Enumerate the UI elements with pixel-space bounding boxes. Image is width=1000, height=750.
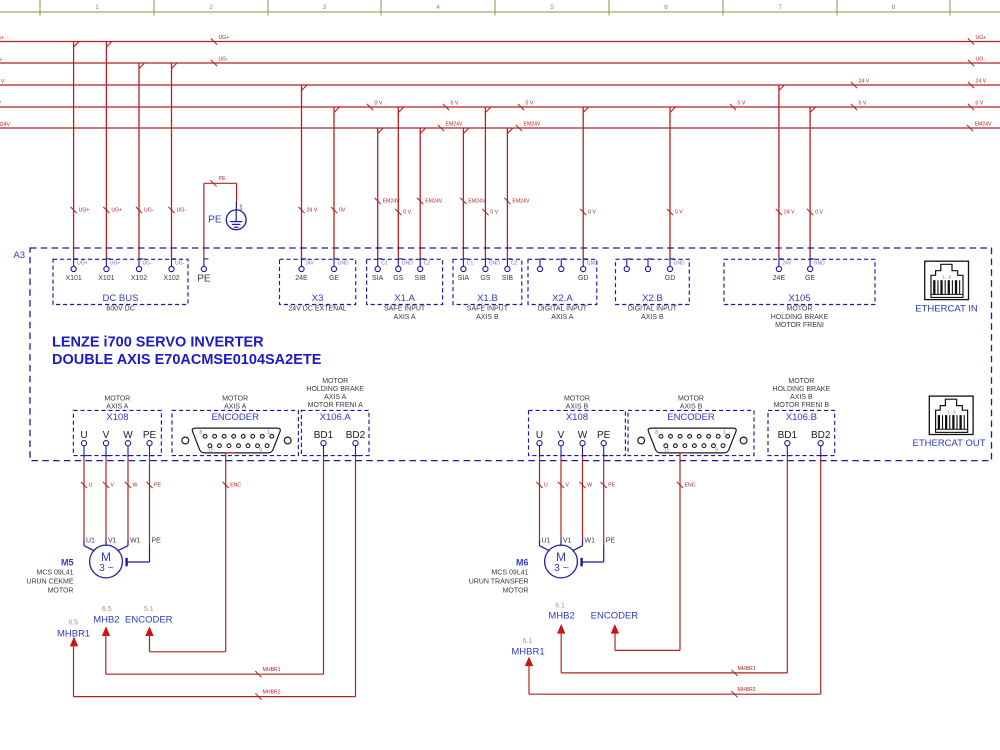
svg-text:UG-: UG-	[976, 57, 986, 63]
svg-text:24 V: 24 V	[976, 79, 987, 85]
connector X106.B	[768, 378, 835, 456]
svg-text:1: 1	[95, 4, 99, 11]
wire 0V drop to x=334	[331, 107, 346, 259]
svg-text:GD: GD	[578, 275, 589, 282]
svg-text:AXIS A: AXIS A	[224, 403, 247, 410]
svg-text:3 ~: 3 ~	[99, 562, 114, 574]
svg-text:HOLDING BRAKE: HOLDING BRAKE	[771, 314, 829, 321]
svg-text:GND: GND	[674, 260, 686, 266]
svg-text:3 ~: 3 ~	[554, 562, 569, 574]
svg-text:0 V: 0 V	[375, 101, 383, 107]
svg-text:W1: W1	[130, 538, 141, 545]
pin 24E of X105	[773, 259, 792, 282]
svg-text:PE: PE	[143, 430, 157, 441]
svg-text:PE: PE	[154, 483, 161, 489]
svg-text:MHB2: MHB2	[93, 614, 119, 625]
svg-text:SAFE INPUT: SAFE INPUT	[384, 306, 426, 313]
svg-text:MOTOR: MOTOR	[788, 378, 814, 385]
svg-text:ENCODER: ENCODER	[667, 412, 715, 423]
svg-text:6.5: 6.5	[102, 606, 112, 613]
svg-text:MHBR1: MHBR1	[57, 629, 90, 640]
svg-text:GND: GND	[402, 260, 414, 266]
pin U of X108.A	[80, 430, 88, 457]
svg-text:AXIS B: AXIS B	[790, 394, 813, 401]
svg-text:4: 4	[436, 4, 440, 11]
svg-text:MHBR2: MHBR2	[263, 690, 281, 696]
motor M6	[469, 545, 578, 594]
pin GD of X2.A	[578, 259, 598, 282]
svg-text:EM24V: EM24V	[512, 199, 530, 205]
svg-text:UG+: UG+	[110, 260, 121, 266]
connector X108.B	[529, 395, 626, 455]
svg-text:AXIS A: AXIS A	[394, 314, 417, 321]
svg-text:0 V: 0 V	[738, 101, 746, 107]
svg-text:5.1: 5.1	[144, 606, 154, 613]
title text	[52, 334, 322, 368]
svg-text:AXIS A: AXIS A	[324, 394, 347, 401]
svg-text:V: V	[103, 430, 110, 441]
pin GD of X2.B	[665, 259, 685, 282]
svg-text:HOLDING BRAKE: HOLDING BRAKE	[773, 386, 831, 393]
svg-text:W: W	[578, 430, 588, 441]
sheet column ruler	[0, 0, 1000, 16]
svg-text:9: 9	[715, 448, 718, 454]
svg-text:SIA: SIA	[458, 275, 470, 282]
connector ENCODER.B	[628, 395, 754, 455]
motor M5	[26, 545, 122, 594]
interruption arrow ENCODER axis B	[591, 610, 639, 633]
svg-text:M5: M5	[61, 558, 74, 568]
svg-text:MHBR1: MHBR1	[511, 647, 544, 658]
svg-text:UG-: UG-	[143, 260, 153, 266]
svg-text:EM24V: EM24V	[425, 199, 443, 205]
interruption arrow MHBR1 axis A	[57, 620, 90, 647]
interruption arrow ENCODER axis A	[125, 606, 173, 636]
svg-text:MOTOR: MOTOR	[322, 378, 348, 385]
wire PE axis B	[582, 457, 616, 566]
pin U of X108.B	[536, 430, 544, 457]
svg-text:X102: X102	[163, 275, 179, 282]
wire EM24V drop to x=463	[460, 128, 486, 259]
svg-text:X3: X3	[312, 293, 324, 304]
svg-text:URUN TRANSFER: URUN TRANSFER	[469, 579, 529, 586]
svg-text:MOTOR: MOTOR	[787, 306, 813, 313]
pin W of X108.A	[123, 430, 133, 457]
svg-text:DC BUS: DC BUS	[103, 293, 139, 304]
svg-text:ENCODER: ENCODER	[591, 610, 639, 621]
svg-text:GND: GND	[338, 260, 350, 266]
svg-text:GND: GND	[814, 260, 826, 266]
pin nc of X2.B	[645, 259, 652, 272]
svg-text:AXIS B: AXIS B	[476, 314, 499, 321]
svg-text:EM24V: EM24V	[383, 199, 401, 205]
pin V of X108.B	[558, 430, 566, 457]
svg-text:DOUBLE AXIS E70ACMSE0104SA2ETE: DOUBLE AXIS E70ACMSE0104SA2ETE	[52, 352, 322, 368]
connector X105	[724, 259, 875, 329]
svg-text:0V: 0V	[339, 208, 346, 214]
bus wire 0 V	[0, 101, 1000, 111]
svg-text:X102: X102	[131, 275, 147, 282]
svg-text:0 V: 0 V	[588, 210, 596, 216]
svg-text:24V: 24V	[782, 260, 792, 266]
svg-text:M6: M6	[516, 558, 529, 568]
wire U phase axis A	[81, 457, 95, 551]
svg-text:0 V: 0 V	[859, 101, 867, 107]
bus wire UG+	[0, 35, 1000, 45]
svg-text:SIA: SIA	[372, 275, 384, 282]
svg-text:C2: C2	[424, 260, 431, 266]
svg-text:DIGITAL INPUT: DIGITAL INPUT	[628, 306, 678, 313]
pin X101 of DC BUS	[98, 259, 120, 282]
svg-text:7: 7	[778, 4, 782, 11]
svg-text:GD: GD	[665, 275, 676, 282]
pin BD2 of X106.B	[811, 430, 831, 457]
svg-text:V: V	[558, 430, 565, 441]
svg-text:MOTOR FRENI: MOTOR FRENI	[775, 322, 824, 329]
svg-text:UG+: UG+	[111, 208, 122, 214]
connector ENCODER.A	[172, 395, 298, 455]
svg-text:0 V: 0 V	[526, 101, 534, 107]
svg-text:PE: PE	[608, 483, 615, 489]
svg-text:24 V: 24 V	[0, 79, 5, 85]
svg-text:MHB2: MHB2	[548, 610, 574, 621]
wire W phase axis A	[118, 457, 141, 551]
svg-text:UG-: UG-	[0, 57, 3, 63]
wire 0 V drop to x=810	[807, 107, 823, 259]
svg-text:U1: U1	[542, 538, 551, 545]
connector X1.A	[367, 259, 443, 321]
svg-text:24E: 24E	[773, 275, 786, 282]
svg-text:GE: GE	[329, 275, 339, 282]
pin BD2 of X106.A	[346, 430, 366, 457]
svg-text:1...8: 1...8	[947, 409, 956, 414]
svg-text:MOTOR: MOTOR	[503, 588, 529, 595]
svg-text:MOTOR: MOTOR	[678, 395, 704, 402]
svg-text:0 V: 0 V	[815, 210, 823, 216]
svg-text:UG+: UG+	[976, 35, 987, 41]
svg-text:SIB: SIB	[502, 275, 514, 282]
svg-text:SIB: SIB	[415, 275, 427, 282]
svg-text:0 V: 0 V	[451, 101, 459, 107]
wire MHBR2 BD2 axis A	[74, 457, 356, 700]
svg-text:24 V: 24 V	[784, 210, 795, 216]
svg-text:UG-: UG-	[175, 260, 185, 266]
svg-text:MOTOR: MOTOR	[48, 588, 74, 595]
connector X2.A	[528, 259, 597, 321]
svg-text:GS: GS	[393, 275, 403, 282]
svg-text:AXIS B: AXIS B	[680, 403, 703, 410]
svg-text:X108: X108	[566, 412, 588, 423]
connector X2.B	[616, 259, 690, 321]
wire 0 V drop to x=583	[580, 107, 596, 259]
svg-text:X101: X101	[65, 275, 81, 282]
svg-text:AXIS B: AXIS B	[641, 314, 664, 321]
svg-text:PE: PE	[219, 176, 226, 182]
svg-text:1: 1	[267, 430, 270, 436]
svg-text:MOTOR: MOTOR	[104, 395, 130, 402]
wire PE axis A	[127, 457, 162, 566]
device box A3 LENZE i700 servo inverter	[13, 248, 991, 461]
svg-text:C1: C1	[467, 260, 474, 266]
wire 24 V drop to x=779	[776, 85, 795, 259]
svg-text:6.5: 6.5	[68, 620, 78, 627]
svg-text:EM24V: EM24V	[975, 122, 993, 128]
svg-text:1: 1	[723, 430, 726, 436]
svg-text:U1: U1	[86, 538, 95, 545]
svg-text:U: U	[536, 430, 543, 441]
svg-text:X106.B: X106.B	[786, 412, 817, 423]
svg-text:X101: X101	[98, 275, 114, 282]
wire ENC axis B encoder to arrow	[615, 453, 696, 651]
pin GE of X105	[805, 259, 825, 282]
connector X106.A	[301, 378, 369, 456]
pin 24E of X3	[295, 259, 314, 282]
svg-text:ENC: ENC	[685, 483, 696, 489]
svg-text:BD2: BD2	[346, 430, 366, 441]
wire UG- drop to x=139	[136, 63, 154, 259]
svg-text:UG+: UG+	[77, 260, 88, 266]
svg-text:UG-: UG-	[177, 208, 187, 214]
svg-text:GE: GE	[805, 275, 815, 282]
svg-text:BD2: BD2	[811, 430, 831, 441]
svg-text:MCS 09L41: MCS 09L41	[492, 570, 529, 577]
bus wire EM24V	[0, 122, 1000, 132]
svg-text:EM24V: EM24V	[468, 199, 486, 205]
svg-text:ETHERCAT IN: ETHERCAT IN	[915, 304, 978, 315]
wire MHBR1 BD1 axis B	[561, 457, 787, 676]
wire W phase axis B	[573, 457, 596, 551]
interruption arrow MHBR1 axis B	[511, 638, 544, 666]
svg-text:EM24V: EM24V	[524, 122, 542, 128]
pin PE of X108.B	[597, 430, 611, 457]
svg-text:MOTOR: MOTOR	[222, 395, 248, 402]
svg-text:6.1: 6.1	[523, 638, 533, 645]
svg-text:UG+: UG+	[219, 35, 230, 41]
bus wire UG-	[0, 57, 1000, 67]
connector X108.A	[73, 395, 161, 455]
pin GE of X3	[329, 259, 349, 282]
svg-text:MOTOR FRENI B: MOTOR FRENI B	[774, 402, 830, 409]
wire ENC axis A encoder to arrow	[150, 453, 242, 652]
wire PE to earth	[204, 176, 237, 259]
pin PE of A3	[197, 259, 211, 285]
svg-text:LENZE i700 SERVO INVERTER: LENZE i700 SERVO INVERTER	[52, 334, 264, 350]
pin X102 of DC BUS	[131, 259, 152, 282]
svg-text:0 V: 0 V	[976, 101, 984, 107]
svg-text:PE: PE	[197, 274, 211, 285]
svg-text:0 V: 0 V	[490, 210, 498, 216]
svg-text:X1.A: X1.A	[394, 293, 415, 304]
svg-text:X108: X108	[106, 412, 128, 423]
earth symbol PE	[208, 202, 246, 230]
svg-text:PE: PE	[606, 538, 616, 545]
wire 0 V drop to x=670	[667, 107, 683, 259]
svg-text:BD1: BD1	[314, 430, 334, 441]
svg-text:15: 15	[664, 448, 670, 454]
pin SIB of X1.A	[415, 259, 431, 282]
svg-text:24V: 24V	[305, 260, 315, 266]
svg-text:SAFE INPUT: SAFE INPUT	[467, 306, 509, 313]
svg-text:V: V	[566, 483, 570, 489]
svg-text:AXIS A: AXIS A	[551, 314, 574, 321]
svg-text:W: W	[587, 483, 592, 489]
pin SIB of X1.B	[502, 259, 518, 282]
pin PE of X108.A	[143, 430, 157, 457]
svg-text:PE: PE	[152, 538, 162, 545]
svg-text:AXIS B: AXIS B	[566, 403, 589, 410]
svg-text:EM24V: EM24V	[446, 122, 464, 128]
svg-text:6.1: 6.1	[555, 603, 565, 610]
pin nc of X2.A	[559, 259, 566, 272]
svg-text:W: W	[133, 483, 138, 489]
wire UG- drop to x=172	[168, 63, 186, 259]
svg-text:U: U	[80, 430, 87, 441]
connector X3	[280, 259, 356, 312]
svg-text:24E: 24E	[295, 275, 308, 282]
svg-text:GND: GND	[587, 260, 599, 266]
wire MHBR2 BD2 axis B	[529, 457, 821, 697]
wire 0 V drop to x=398	[395, 107, 411, 259]
wire V phase axis B	[558, 457, 572, 546]
wire EM24V drop to x=420	[417, 128, 443, 259]
svg-text:MOTOR FRENI A: MOTOR FRENI A	[308, 402, 363, 409]
svg-text:8: 8	[892, 4, 896, 11]
wire UG+ drop to x=74	[71, 42, 90, 259]
svg-text:8: 8	[655, 430, 658, 436]
svg-text:0 V: 0 V	[675, 210, 683, 216]
svg-text:V1: V1	[108, 538, 117, 545]
svg-text:MHBR2: MHBR2	[738, 687, 756, 693]
pin SIA of X1.A	[372, 259, 388, 282]
svg-text:9: 9	[259, 448, 262, 454]
svg-text:GND: GND	[489, 260, 501, 266]
svg-text:ETHERCAT OUT: ETHERCAT OUT	[912, 438, 985, 449]
svg-text:W: W	[123, 430, 133, 441]
svg-text:X106.A: X106.A	[320, 412, 352, 423]
svg-text:ENCODER: ENCODER	[211, 412, 259, 423]
svg-text:MHBR1: MHBR1	[738, 666, 756, 672]
pin nc of X2.B	[624, 259, 631, 272]
svg-text:0 V: 0 V	[403, 210, 411, 216]
wire MHBR1 BD1 axis A	[106, 457, 324, 677]
svg-text:W1: W1	[585, 538, 596, 545]
svg-text:GS: GS	[480, 275, 490, 282]
svg-text:UG+: UG+	[0, 36, 4, 42]
wire V phase axis A	[103, 457, 117, 546]
pin V of X108.A	[103, 430, 111, 457]
pin SIA of X1.B	[458, 259, 474, 282]
svg-text:PE: PE	[208, 215, 222, 226]
DB15 encoder connector axis A	[182, 428, 291, 454]
svg-text:V1: V1	[563, 538, 572, 545]
svg-text:DIGITAL INPUT: DIGITAL INPUT	[538, 306, 588, 313]
svg-text:U: U	[89, 483, 93, 489]
svg-text:U: U	[544, 483, 548, 489]
svg-text:1...8: 1...8	[942, 275, 951, 280]
svg-text:C1: C1	[381, 260, 388, 266]
svg-text:UG+: UG+	[79, 208, 90, 214]
svg-text:A3: A3	[13, 250, 25, 261]
svg-text:X1.B: X1.B	[477, 293, 498, 304]
svg-text:X2.B: X2.B	[642, 293, 663, 304]
connector X1.B	[453, 259, 522, 321]
svg-text:2: 2	[209, 4, 213, 11]
svg-text:AXIS A: AXIS A	[106, 403, 129, 410]
pin GS of X1.A	[393, 259, 413, 282]
svg-text:6: 6	[664, 4, 668, 11]
svg-text:8: 8	[199, 430, 202, 436]
svg-text:V: V	[111, 483, 115, 489]
svg-text:15: 15	[208, 448, 214, 454]
svg-text:5: 5	[550, 4, 554, 11]
svg-text:3: 3	[323, 4, 327, 11]
svg-text:600V DC: 600V DC	[106, 306, 134, 313]
wire EM24V drop to x=378	[375, 128, 401, 259]
connector ETHERCAT IN RJ45	[915, 261, 978, 314]
svg-text:24 V: 24 V	[307, 208, 318, 214]
interruption arrow MHB2 axis A	[93, 606, 119, 636]
svg-text:X105: X105	[788, 293, 810, 304]
wire 24 V drop to x=302	[298, 85, 317, 259]
wire 0 V drop to x=485	[482, 107, 498, 259]
svg-text:MCS 09L41: MCS 09L41	[37, 570, 74, 577]
svg-text:BD1: BD1	[778, 430, 798, 441]
pin BD1 of X106.A	[314, 430, 334, 457]
svg-text:ENCODER: ENCODER	[125, 614, 173, 625]
wire EM24V drop to x=507	[504, 128, 530, 259]
pin X101 of DC BUS	[65, 259, 87, 282]
svg-text:MHBR1: MHBR1	[263, 667, 281, 673]
svg-text:UG-: UG-	[144, 208, 154, 214]
svg-text:24V DC EXTENAL: 24V DC EXTENAL	[288, 306, 346, 313]
connector DC BUS	[53, 259, 188, 312]
svg-text:C2: C2	[511, 260, 518, 266]
svg-text:ENC: ENC	[230, 483, 241, 489]
svg-text:MOTOR: MOTOR	[564, 395, 590, 402]
pin W of X108.B	[578, 430, 588, 457]
bus wire 24 V	[0, 79, 1000, 89]
pin X102 of DC BUS	[163, 259, 184, 282]
wire U phase axis B	[536, 457, 550, 551]
interruption arrow MHB2 axis B	[548, 603, 574, 634]
svg-text:HOLDING BRAKE: HOLDING BRAKE	[306, 386, 364, 393]
wire UG+ drop to x=106	[103, 42, 122, 259]
svg-text:EM24V: EM24V	[0, 122, 11, 128]
DB15 encoder connector axis B	[638, 428, 747, 454]
svg-text:24 V: 24 V	[859, 79, 870, 85]
svg-text:X2.A: X2.A	[552, 293, 573, 304]
pin GS of X1.B	[480, 259, 500, 282]
pin BD1 of X106.B	[778, 430, 798, 457]
connector ETHERCAT OUT RJ45	[912, 396, 985, 449]
svg-text:URUN CEKME: URUN CEKME	[26, 579, 73, 586]
pin nc of X2.A	[537, 259, 544, 272]
svg-text:PE: PE	[597, 430, 611, 441]
svg-text:UG-: UG-	[219, 57, 229, 63]
